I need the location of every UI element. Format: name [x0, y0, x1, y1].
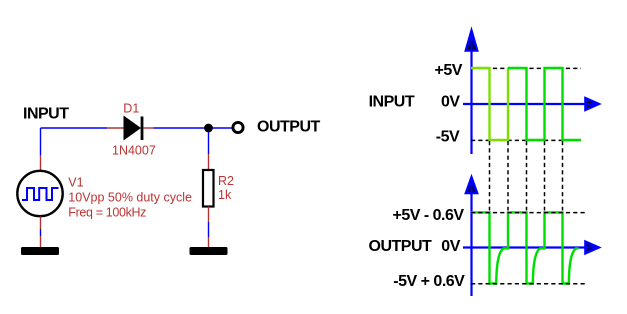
diode D1 anode pin: [107, 127, 124, 129]
plot2 dashed level line +5V-0.6V: [471, 212, 585, 214]
output terminal: [233, 122, 243, 132]
inter-plot vertical dashed line 4: [544, 141, 546, 211]
plot1 vertical axis arrowhead: [466, 31, 477, 51]
svg-text:-5V + 0.6V: -5V + 0.6V: [393, 273, 465, 290]
svg-text:D1: D1: [123, 102, 139, 116]
source V1 circle: [17, 171, 62, 216]
plot2 horizontal axis arrowhead: [586, 242, 599, 253]
wire input-net horizontal: [41, 127, 108, 129]
plot2 output trace (green): [471, 212, 579, 283]
wire diode to node A: [154, 127, 205, 129]
diode D1 cathode pin: [143, 127, 153, 129]
inter-plot vertical dashed line 1: [489, 141, 491, 211]
inter-plot vertical dashed line 3: [526, 141, 528, 211]
svg-text:-5V: -5V: [436, 129, 460, 146]
svg-text:R2: R2: [218, 174, 234, 188]
svg-text:INPUT: INPUT: [369, 94, 415, 111]
plot1 horizontal axis arrowhead: [586, 98, 599, 109]
pin V1 plus (top): [40, 155, 42, 170]
pin ground 2: [208, 237, 210, 247]
pin ground 1: [40, 236, 42, 247]
plot2 vertical axis: [470, 179, 472, 296]
pin R2 bottom: [208, 207, 210, 223]
wire node A down: [208, 132, 210, 154]
svg-text:10Vpp 50% duty cycle: 10Vpp 50% duty cycle: [68, 191, 192, 205]
resistor R2 body: [203, 170, 214, 207]
inter-plot vertical dashed line 2: [507, 141, 509, 211]
plot1 horizontal axis: [463, 103, 596, 105]
plot1 input trace first period (yellow-green): [471, 68, 508, 140]
plot2 horizontal axis arrow stem: [584, 246, 596, 248]
plot2 horizontal axis: [463, 246, 596, 248]
svg-text:OUTPUT: OUTPUT: [369, 238, 433, 255]
plot1 vertical axis arrow stem: [470, 34, 472, 52]
wire R2 to ground: [208, 222, 210, 237]
svg-text:1N4007: 1N4007: [112, 144, 156, 158]
plot1 input trace (green): [508, 68, 581, 140]
svg-text:+5V - 0.6V: +5V - 0.6V: [393, 207, 465, 224]
svg-text:INPUT: INPUT: [23, 106, 69, 123]
svg-text:V1: V1: [68, 176, 83, 190]
wire input-net vertical to V1: [40, 128, 42, 155]
plot2 vertical axis arrowhead: [466, 178, 477, 193]
svg-text:0V: 0V: [441, 238, 460, 255]
inter-plot vertical dashed line 5: [562, 141, 564, 211]
plot1 horizontal axis arrow stem: [584, 103, 596, 105]
diode D1 body: [124, 116, 144, 141]
plot1 dashed level line +5V: [471, 67, 581, 69]
ground 1: [21, 247, 59, 255]
wire node A to output terminal: [213, 127, 233, 129]
plot2 vertical axis arrow stem: [470, 178, 472, 194]
svg-text:Freq = 100kHz: Freq = 100kHz: [68, 206, 146, 220]
wire V1 to ground: [40, 229, 42, 236]
plot2 dashed level line -5V+0.6V: [471, 283, 585, 285]
pin V1 minus (bottom): [40, 217, 42, 230]
plot1 dashed level line -5V: [471, 139, 581, 141]
pin R2 top: [208, 154, 210, 170]
ground 2: [190, 247, 228, 255]
source V1 square-wave glyph: [22, 188, 59, 200]
svg-text:+5V: +5V: [435, 62, 463, 79]
svg-text:0V: 0V: [441, 94, 460, 111]
svg-text:1k: 1k: [218, 188, 232, 202]
plot1 vertical axis: [470, 34, 472, 154]
node A junction dot: [204, 124, 213, 133]
svg-text:OUTPUT: OUTPUT: [257, 119, 321, 136]
